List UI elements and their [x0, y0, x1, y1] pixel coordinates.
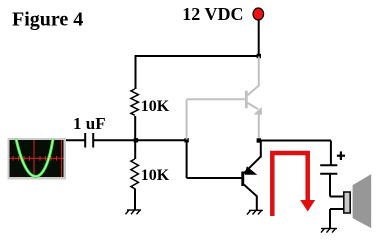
- svg-text:12 VDC: 12 VDC: [182, 4, 243, 24]
- svg-text:10K: 10K: [141, 98, 170, 115]
- svg-text:Figure 4: Figure 4: [12, 9, 83, 31]
- svg-text:10K: 10K: [141, 167, 170, 184]
- svg-text:1 uF: 1 uF: [73, 114, 106, 133]
